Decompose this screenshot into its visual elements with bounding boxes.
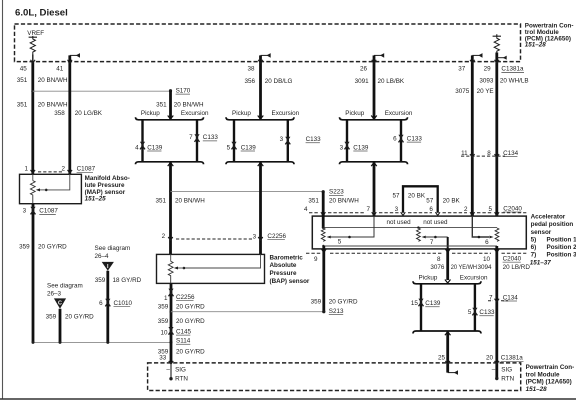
svg-text:C134: C134	[503, 294, 519, 301]
svg-text:RTN: RTN	[501, 375, 514, 382]
wire: thin branch to S223	[171, 190, 324, 192]
wire W3: block1 out, 351 20 BN/WH down to BAP pin 2	[168, 163, 173, 255]
block 4 bottom bus	[413, 331, 481, 335]
wire W5: circuit 3091 20 LB/BK from PCM pin 26 to block 3	[372, 53, 385, 119]
labels Pickup / Excursion (block 4)	[419, 275, 488, 282]
svg-text:20 LB/BK: 20 LB/BK	[378, 78, 405, 85]
see diagram 26-3 reference	[47, 283, 83, 309]
splitter block 4 top bus	[413, 280, 481, 284]
svg-text:8: 8	[437, 256, 441, 263]
block 1 right branch with connector C133 pin 7	[194, 120, 199, 162]
svg-text:351: 351	[17, 102, 28, 109]
label 3076 20 YE/WH (APP pin 8)	[430, 264, 477, 271]
svg-text:3: 3	[280, 136, 284, 143]
BAP sensor name label	[270, 254, 310, 284]
svg-text:5: 5	[468, 309, 472, 316]
svg-text:356: 356	[244, 78, 255, 85]
svg-text:25: 25	[438, 355, 446, 362]
svg-text:1: 1	[164, 295, 168, 302]
svg-text:C133: C133	[203, 134, 219, 141]
svg-text:See diagram: See diagram	[95, 245, 131, 252]
label 358 20 LG/BK	[54, 110, 103, 117]
svg-text:20 BN/WH: 20 BN/WH	[38, 77, 68, 84]
wire: APP pin 8 down to block 4	[446, 249, 449, 280]
svg-text:359: 359	[95, 277, 106, 284]
svg-text:Excursion: Excursion	[460, 275, 488, 282]
svg-text:5: 5	[488, 206, 492, 213]
svg-text:7: 7	[430, 239, 434, 246]
svg-text:4: 4	[135, 144, 139, 151]
svg-text:C133: C133	[306, 136, 322, 143]
svg-text:S114: S114	[176, 338, 191, 345]
svg-text:38: 38	[247, 66, 255, 73]
label 359 20 GY/RD + S213	[311, 299, 358, 315]
svg-text:Excursion: Excursion	[385, 110, 413, 117]
svg-text:45: 45	[20, 66, 28, 73]
wire W4: circuit 356 20 DB/LG from PCM pin 38 to block 2	[258, 53, 271, 119]
BAP sensor box	[157, 254, 265, 283]
block 4 left branch with connector C139 pin 15	[418, 284, 423, 331]
svg-text:4: 4	[304, 206, 308, 213]
svg-text:Powertrain Con-: Powertrain Con-	[526, 364, 575, 371]
wire: block 4 out to PCM pin 25	[445, 332, 458, 375]
svg-text:359: 359	[311, 299, 322, 306]
label 351 20 BN/WH (upper)	[17, 77, 68, 84]
node on W1: branch to S170	[31, 90, 34, 93]
label 356 20 DB/LG	[244, 78, 292, 85]
svg-text:7: 7	[366, 206, 370, 213]
connector chevrons at C2040 pins	[321, 212, 499, 215]
resistor inside PCM on pin 29 wire	[493, 34, 501, 52]
svg-text:3: 3	[253, 233, 257, 240]
svg-text:3: 3	[23, 208, 27, 215]
splice S223 + wire down to APP pin 4	[322, 189, 345, 217]
svg-text:3094: 3094	[477, 264, 492, 271]
svg-text:20 YE/WH: 20 YE/WH	[451, 264, 478, 271]
label 359 20 GY/RD	[158, 318, 205, 325]
wire from 26-4: 359 18 GY/RD	[105, 271, 110, 343]
APP potentiometer 3 (position 3)	[472, 216, 499, 246]
block 3 left branch with connector C139 pin 3	[344, 120, 349, 162]
svg-text:20 YE: 20 YE	[477, 88, 494, 95]
svg-text:20 BN/WH: 20 BN/WH	[175, 198, 205, 205]
svg-text:18 GY/RD: 18 GY/RD	[113, 277, 142, 284]
svg-text:(PCM) (12A650): (PCM) (12A650)	[526, 379, 572, 386]
svg-text:20 BN/WH: 20 BN/WH	[174, 102, 204, 109]
connector C1087 (pins 1,2)	[24, 166, 95, 173]
svg-text:359: 359	[19, 244, 30, 251]
svg-text:20 WH/LB: 20 WH/LB	[500, 78, 529, 85]
connector C2256 (pins 2,3)	[162, 233, 287, 240]
page frame bottom border	[0, 398, 576, 400]
wire W1: circuit 351 20 BN/WH from PCM pin 45 to MAP pin 1	[31, 60, 36, 175]
arrow on W7 wire continues	[497, 56, 507, 60]
label 3093 20 WH/LB	[479, 78, 528, 85]
svg-text:Excursion: Excursion	[272, 110, 300, 117]
splice S114 label	[176, 338, 191, 345]
svg-text:351: 351	[17, 77, 28, 84]
svg-text:C1087: C1087	[77, 166, 96, 173]
svg-text:20 GY/RD: 20 GY/RD	[176, 318, 205, 325]
APP potentiometer 2 (position 2)	[417, 228, 448, 249]
pin 6 + connector C1010	[99, 300, 132, 307]
svg-text:C1381a: C1381a	[501, 355, 524, 362]
APP sensor connector stubs through C2040	[374, 213, 497, 216]
svg-text:57: 57	[392, 192, 400, 199]
wire: thin branch W1 to S170	[33, 90, 171, 92]
svg-text:351: 351	[308, 198, 319, 205]
svg-text:2: 2	[162, 233, 166, 240]
svg-text:sensor: sensor	[531, 229, 552, 236]
svg-text:C139: C139	[353, 144, 369, 151]
label 351 20 BN/WH (lower)	[17, 102, 68, 109]
svg-text:2: 2	[464, 206, 468, 213]
label 351 20 BN/WH above BAP	[155, 198, 205, 205]
svg-text:Pressure: Pressure	[270, 270, 297, 277]
svg-text:41: 41	[56, 66, 64, 73]
Accelerator pedal position sensor box	[312, 216, 526, 249]
APP sensor name label + positions	[530, 214, 576, 267]
label 359 20 GY/RD on W1b	[19, 244, 67, 251]
wire: APP pin 9 to splice S213, 359 20 GY/RD	[322, 246, 325, 313]
svg-text:C1381a: C1381a	[501, 66, 524, 73]
node: junction with S213 branch	[170, 310, 173, 313]
svg-text:VREF: VREF	[27, 30, 44, 37]
svg-text:3: 3	[395, 206, 399, 213]
block 3 right branch with connector C133 pin 6	[398, 120, 403, 162]
PCM top dashed box	[15, 24, 521, 62]
connector C2040 bottom: pins 9,8,10	[306, 253, 526, 263]
svg-text:5): 5)	[531, 237, 537, 244]
svg-text:S170: S170	[176, 87, 191, 94]
svg-text:Position 2: Position 2	[547, 244, 576, 251]
svg-text:351: 351	[155, 198, 166, 205]
svg-text:6.0L, Diesel: 6.0L, Diesel	[15, 8, 68, 19]
svg-text:pedal position: pedal position	[531, 221, 574, 228]
APP potentiometer 1 (position 1)	[321, 216, 374, 246]
svg-text:Pickup: Pickup	[345, 110, 364, 117]
block 2 right branch with connector C133 pin 3	[285, 120, 290, 162]
svg-text:not used: not used	[387, 219, 412, 226]
block 4 right branch with connector C133 pin 5	[472, 284, 477, 331]
svg-text:351: 351	[156, 102, 167, 109]
svg-text:Position 1: Position 1	[547, 237, 576, 244]
svg-text:S223: S223	[329, 189, 344, 196]
svg-text:3: 3	[340, 144, 344, 151]
block 3 bottom bus	[340, 162, 408, 166]
connector C1381a (top)	[501, 66, 524, 73]
wire from 26-3 ground: 359 20 GY/RD	[59, 309, 62, 343]
APP internal: ground rail connecting resistor bottoms	[322, 245, 497, 247]
svg-text:20 BN/WH: 20 BN/WH	[38, 102, 68, 109]
svg-text:6: 6	[393, 135, 397, 142]
svg-text:10: 10	[483, 256, 491, 263]
svg-text:20 GY/RD: 20 GY/RD	[176, 348, 205, 355]
svg-text:Pickup: Pickup	[419, 275, 438, 282]
label 3094 20 LB/RD (APP pin 10)	[477, 264, 530, 271]
svg-text:2: 2	[61, 166, 65, 173]
svg-text:C2040: C2040	[503, 255, 522, 262]
splitter block 1 top bus	[136, 116, 204, 120]
block 2 bottom bus	[226, 162, 294, 166]
svg-text:20 LB/RD: 20 LB/RD	[503, 264, 531, 271]
label 3091 20 LB/BK	[355, 78, 405, 85]
svg-text:15: 15	[411, 300, 419, 307]
connector C134 (pins 11, 8)	[461, 150, 519, 157]
connector C134 pin 7	[488, 294, 518, 301]
SIG RTN (left, pin 33)	[166, 366, 188, 383]
svg-text:26–3: 26–3	[47, 291, 62, 298]
label 3075 20 YE	[455, 88, 493, 95]
svg-text:RTN: RTN	[175, 375, 188, 382]
block 2 left branch with connector C139 pin 5	[231, 120, 236, 162]
svg-text:C133: C133	[407, 135, 423, 142]
svg-text:C: C	[58, 301, 62, 307]
svg-text:Accelerator: Accelerator	[531, 214, 566, 221]
svg-text:Barometric: Barometric	[270, 254, 304, 261]
svg-text:SIG: SIG	[175, 367, 186, 374]
wire: block2 out down to BAP pin 3	[258, 163, 263, 255]
svg-text:20 GY/RD: 20 GY/RD	[329, 299, 358, 306]
svg-text:33: 33	[159, 355, 167, 362]
wire W1b: MAP pin 3 output 359 20 GY/RD	[30, 204, 35, 343]
svg-text:37: 37	[458, 66, 466, 73]
svg-text:20 BK: 20 BK	[408, 192, 426, 199]
wire: thin branch to S213	[171, 311, 324, 313]
svg-text:Absolute: Absolute	[270, 262, 297, 269]
svg-text:151–28: 151–28	[525, 42, 547, 49]
labels Pickup / Excursion (block 3)	[345, 110, 413, 117]
svg-text:6: 6	[429, 206, 433, 213]
svg-text:359: 359	[158, 318, 169, 325]
svg-text:3076: 3076	[430, 264, 445, 271]
svg-text:3091: 3091	[355, 78, 370, 85]
svg-text:–: –	[492, 366, 496, 373]
svg-text:6): 6)	[531, 244, 537, 251]
jumper labels 57 20 BK (right leg)	[426, 197, 460, 204]
SIG RTN (right, pin 20)	[492, 366, 515, 383]
label 351 20 BN/WH at S170	[156, 102, 204, 109]
svg-text:20 DB/LG: 20 DB/LG	[265, 78, 293, 85]
svg-text:7): 7)	[531, 252, 537, 259]
svg-text:C139: C139	[425, 300, 441, 307]
VREF pull-up resistor (inside PCM)	[27, 30, 44, 62]
MAP sensor name label	[85, 175, 130, 202]
svg-text:26: 26	[360, 66, 368, 73]
svg-text:359: 359	[158, 304, 169, 311]
connector C2040 top: pins 4,7,3,6,2,5	[304, 205, 526, 213]
svg-text:C139: C139	[147, 144, 163, 151]
APP internal: VREF rail connecting resistor tops	[322, 213, 497, 229]
svg-text:3075: 3075	[455, 88, 470, 95]
svg-text:29: 29	[484, 66, 492, 73]
labels Pickup / Excursion (block 2)	[232, 110, 300, 117]
labels Pickup / Excursion (block 1)	[141, 110, 209, 117]
svg-text:C139: C139	[241, 144, 257, 151]
svg-text:–: –	[166, 366, 170, 373]
svg-text:20 LG/BK: 20 LG/BK	[75, 110, 103, 117]
splice bus S114 horizontal wire	[32, 341, 173, 344]
svg-text:C1087: C1087	[39, 208, 58, 215]
svg-text:C145: C145	[176, 328, 192, 335]
svg-text:C2256: C2256	[176, 294, 195, 301]
label 359 / 33 20 GY/RD	[158, 348, 205, 361]
svg-text:26–4: 26–4	[95, 253, 110, 260]
svg-text:C2256: C2256	[267, 233, 286, 240]
block 1 left branch with connector C139 pin 4	[140, 120, 145, 162]
svg-text:C134: C134	[503, 150, 519, 157]
see diagram 26-4 reference	[95, 245, 131, 271]
svg-text:151–25: 151–25	[85, 196, 107, 203]
jumper labels 57 20 BK (left leg)	[392, 192, 425, 199]
svg-text:6: 6	[99, 300, 103, 307]
svg-text:C1010: C1010	[114, 300, 133, 307]
connector chevrons at C2040 bottom pins	[322, 249, 500, 252]
block 1 bottom bus	[136, 162, 204, 166]
svg-text:Pickup: Pickup	[141, 110, 160, 117]
svg-text:20: 20	[486, 355, 494, 362]
svg-text:9: 9	[314, 256, 318, 263]
wire: BAP pin 1 output 359 20 GY/RD down to SIG RTN	[168, 283, 173, 378]
svg-text:SIG: SIG	[501, 367, 512, 374]
svg-text:not used: not used	[423, 219, 448, 226]
svg-text:(BAP) sensor: (BAP) sensor	[270, 278, 310, 285]
svg-text:Pickup: Pickup	[232, 110, 251, 117]
svg-text:20 BN/WH: 20 BN/WH	[329, 198, 359, 205]
svg-text:C2040: C2040	[503, 205, 522, 212]
jumper circuit 57 20 BK between APP pins 3 and 6	[403, 186, 438, 213]
svg-text:359: 359	[46, 313, 57, 320]
svg-text:1: 1	[24, 166, 28, 173]
svg-text:20 GY/RD: 20 GY/RD	[176, 304, 205, 311]
svg-text:5: 5	[338, 239, 342, 246]
svg-text:3093: 3093	[479, 78, 494, 85]
splitter block 2 top bus	[226, 116, 294, 120]
wire: block3 out down to APP connector pin 7	[373, 163, 376, 213]
wire W6: circuit 3075 20 YE from PCM pin 37 to APP pin 2	[470, 53, 483, 216]
svg-text:5: 5	[227, 144, 231, 151]
svg-text:See diagram: See diagram	[47, 283, 83, 290]
svg-text:S213: S213	[329, 308, 344, 315]
svg-text:7: 7	[189, 134, 193, 141]
pin 3 + connector C1087 (bottom)	[23, 208, 59, 215]
svg-text:Position 3: Position 3	[547, 252, 576, 259]
pin 20 + connector C1381a (bottom)	[486, 355, 524, 362]
svg-text:358: 358	[54, 110, 65, 117]
svg-text:20 GY/RD: 20 GY/RD	[65, 313, 94, 320]
PCM bottom dashed box	[148, 363, 521, 391]
PCM bottom-right label	[526, 364, 575, 393]
svg-text:C133: C133	[479, 309, 495, 316]
wire W7: circuit 3093 20 WH/LB from PCM pin 29 to APP pin 5	[495, 53, 500, 217]
MAP sensor box	[20, 174, 82, 203]
svg-text:151–28: 151–28	[526, 386, 548, 393]
splitter block 3 top bus	[340, 116, 408, 120]
wire: APP pin 10 down to PCM pin 20	[495, 246, 500, 380]
svg-text:trol Module: trol Module	[526, 371, 560, 378]
pin 1 + connector C2256 (bottom)	[164, 294, 195, 302]
wire from S170 down to splitter block 1	[169, 91, 172, 119]
svg-text:57: 57	[426, 197, 434, 204]
page frame left border	[2, 0, 4, 399]
PCM top-right label	[525, 23, 574, 49]
svg-text:151–37: 151–37	[530, 259, 552, 266]
node: branch to S223	[169, 190, 172, 193]
APP text not used / not used	[387, 219, 448, 226]
svg-text:Excursion: Excursion	[181, 110, 209, 117]
pin 10 + connector C145	[160, 328, 191, 336]
svg-text:10: 10	[160, 329, 168, 336]
splice S170	[169, 87, 191, 94]
svg-text:20 GY/RD: 20 GY/RD	[38, 244, 67, 251]
svg-text:20 BK: 20 BK	[443, 197, 461, 204]
svg-text:6: 6	[485, 239, 489, 246]
label 359 20 GY/RD	[158, 304, 205, 311]
wire W2: circuit 358 20 LG/BK from PCM pin 41 to MAP pin 2	[68, 53, 81, 174]
label 351 20 BN/WH at S223	[308, 198, 359, 205]
